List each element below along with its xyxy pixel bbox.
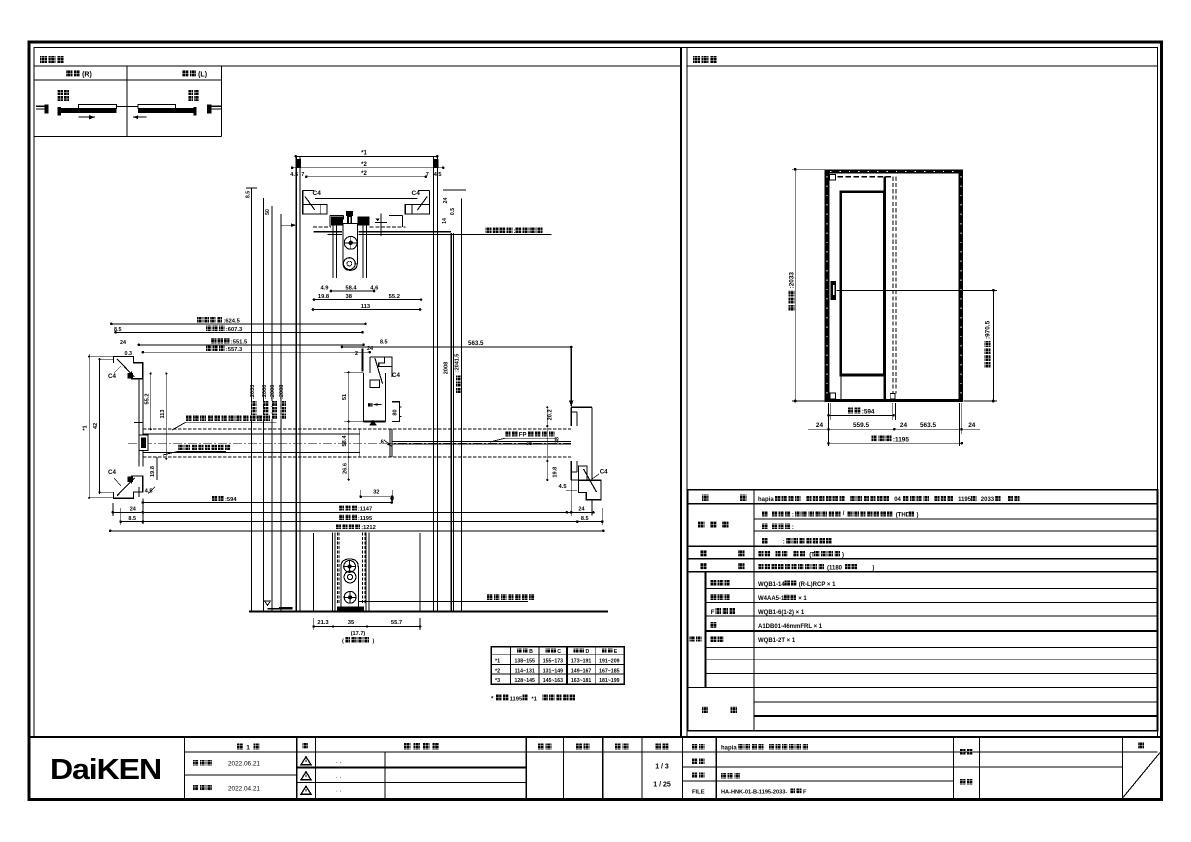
- svg-text:): ): [872, 566, 874, 572]
- svg-text:(THD: (THD: [896, 513, 911, 519]
- svg-text:1 / 3: 1 / 3: [655, 764, 669, 771]
- svg-text:C4: C4: [392, 372, 400, 379]
- door top track dashed line: [830, 176, 894, 178]
- sill casing line right: [419, 533, 421, 612]
- svg-text:(L): (L): [198, 72, 207, 79]
- svg-text:14: 14: [442, 218, 448, 224]
- hanger rail wings black: [331, 217, 343, 226]
- svg-text:58.4: 58.4: [345, 286, 357, 292]
- svg-text:2033: 2033: [981, 497, 995, 503]
- middle jamb body: [363, 373, 365, 421]
- vertical dim line 2008 right: [450, 233, 452, 612]
- door frame elevation left band: [825, 169, 830, 401]
- svg-text:24: 24: [120, 340, 126, 346]
- reference table headers: [517, 648, 522, 653]
- door section dim 19.8/38/55.2: [314, 299, 421, 301]
- wall stud blocking black square right: [433, 159, 438, 168]
- spec table vertical label divider: [753, 490, 755, 731]
- right side rows: [683, 751, 1123, 753]
- header 右引(R): [66, 70, 72, 77]
- wall stud blocking black square left: [296, 159, 301, 168]
- svg-text:24: 24: [816, 422, 824, 429]
- svg-text::: :: [792, 525, 794, 531]
- svg-text::1147: :1147: [358, 507, 372, 513]
- svg-text:55.7: 55.7: [391, 620, 402, 626]
- panel title bar bottom line left: [34, 65, 681, 67]
- svg-text::1195: :1195: [893, 436, 909, 443]
- svg-text:*3: *3: [495, 678, 500, 684]
- vertical dim line 吊元高2041.5 right: [460, 199, 462, 612]
- label No column: [303, 743, 309, 749]
- sliding direction table frame: [34, 79, 221, 81]
- leader note 引戸FP用キャップ: [505, 431, 511, 437]
- right jamb lower casing C4: [579, 466, 601, 500]
- rotated height dim label 2000: [263, 414, 268, 419]
- svg-text::551.5: :551.5: [231, 340, 248, 346]
- middle jamb rotated dims 58.4 26.6: [348, 422, 350, 480]
- plan top dim line 551.5: [139, 344, 364, 346]
- svg-text:(17.7): (17.7): [351, 631, 366, 637]
- svg-text::557.3: :557.3: [226, 347, 243, 353]
- spec 品番 sub row 吊戸車: [711, 594, 717, 600]
- svg-text:C4: C4: [600, 468, 608, 475]
- rail level mark triangle: [375, 218, 380, 221]
- dim extension verticals bottom left: [112, 503, 114, 516]
- spec row 把手 content: [758, 551, 764, 557]
- svg-text:128~145: 128~145: [515, 678, 535, 684]
- long vertical dim extension line x263: [263, 198, 265, 612]
- door floor guide cover bottom-left: [830, 393, 836, 399]
- door bottom dashed pair right: [361, 533, 363, 604]
- svg-text:19.8: 19.8: [553, 467, 559, 478]
- label 縮尺: [655, 744, 661, 750]
- svg-text:21.3: 21.3: [317, 620, 329, 626]
- label 第1版: [237, 744, 243, 750]
- spec row 仕上げ label: [698, 522, 704, 529]
- svg-text:F: F: [803, 790, 807, 796]
- plan top dim line 624.5: [111, 323, 365, 325]
- svg-text::2033: :2033: [789, 272, 796, 289]
- spec row 備考 label: [702, 707, 708, 714]
- svg-text:58.4: 58.4: [342, 435, 348, 447]
- svg-text:7: 7: [301, 172, 304, 178]
- left jamb vertical connecting lines: [138, 379, 140, 467]
- label 名称: [692, 744, 698, 750]
- svg-text:1195: 1195: [510, 696, 523, 702]
- door band centerline: [128, 442, 571, 444]
- note 吊戸レール:固定図参照: [486, 227, 492, 233]
- spec 品番 sub row 扉: [711, 622, 717, 628]
- title block top line: [29, 736, 1161, 738]
- spec table outer frame: [688, 490, 1158, 731]
- svg-text:191~209: 191~209: [599, 659, 619, 665]
- sill casing line left: [313, 533, 315, 612]
- svg-text:*1: *1: [361, 151, 367, 157]
- wall stud line pair right: [433, 156, 435, 612]
- hanger roller wheel upper: [344, 236, 357, 249]
- svg-text:138~155: 138~155: [515, 659, 535, 665]
- hanger rail stem black: [346, 211, 353, 216]
- 図名 content 三和土間: [721, 773, 727, 779]
- plan top dim line 607.3: [116, 331, 363, 333]
- svg-text:563.5: 563.5: [920, 422, 936, 429]
- svg-text:38: 38: [345, 294, 352, 300]
- svg-text:DaiKEN: DaiKEN: [50, 754, 161, 786]
- spec 仕上げ content rows: [762, 511, 768, 517]
- svg-text:24: 24: [130, 506, 137, 512]
- elevation left dim 枠外高2033: [794, 169, 796, 401]
- right jamb dim line 20.2/19.8: [546, 407, 548, 480]
- svg-text:WQB1-6(1-2) × 1: WQB1-6(1-2) × 1: [758, 610, 805, 616]
- svg-text:HA-HNK-01-B-1195-2033-: HA-HNK-01-B-1195-2033-: [721, 790, 787, 796]
- svg-text::2000: :2000: [270, 385, 276, 399]
- svg-text:C4: C4: [108, 373, 116, 380]
- leader line フラットレール: [358, 601, 528, 603]
- spec 品番 sub row 引手: [711, 636, 717, 642]
- sill dims 21.3/35/55.7: [314, 626, 420, 628]
- svg-text:1: 1: [246, 745, 250, 752]
- svg-text:4.5: 4.5: [290, 172, 298, 178]
- revision desc divider: [384, 752, 386, 799]
- svg-text:. .: . .: [336, 758, 342, 765]
- left-sliding mini schematic: [188, 90, 193, 95]
- svg-text:): ): [917, 513, 919, 519]
- label 承認: [538, 744, 544, 750]
- svg-text:): ): [842, 553, 844, 559]
- svg-text:WQB1-14: WQB1-14: [758, 582, 785, 588]
- svg-text:24: 24: [968, 422, 976, 429]
- svg-text:E: E: [614, 649, 618, 655]
- reference size table frame: [491, 647, 624, 685]
- svg-text:*1: *1: [531, 696, 537, 702]
- svg-text:F: F: [711, 609, 715, 616]
- door handle black with slot: [831, 281, 836, 300]
- title 正面図 (front view): [693, 56, 700, 63]
- svg-text::2033: :2033: [250, 385, 256, 399]
- middle jamb right bracket 80: [392, 402, 402, 422]
- svg-text:8.5: 8.5: [114, 327, 122, 333]
- svg-text:19.8: 19.8: [150, 466, 156, 477]
- header 左引(L): [182, 70, 188, 77]
- pocket edge dashed vertical pair: [892, 177, 894, 394]
- frame band white tick marks: [826, 176, 828, 396]
- svg-text:D: D: [586, 649, 590, 655]
- svg-text:8.5: 8.5: [581, 516, 589, 522]
- svg-text:8.5: 8.5: [128, 516, 136, 522]
- label 図名: [692, 772, 698, 778]
- middle jamb mark arrow: [368, 403, 372, 407]
- label 改訂日 and date: [193, 785, 199, 791]
- spec table 品番 sub divider: [705, 572, 707, 688]
- page cell diagonal: [1123, 753, 1160, 798]
- svg-text:19.8: 19.8: [318, 294, 330, 300]
- right jamb plan profile: [571, 406, 592, 408]
- svg-text:24: 24: [443, 198, 449, 204]
- svg-text:C4: C4: [108, 469, 116, 476]
- left dim vertical *1: [88, 354, 90, 498]
- bottom dim 1147 with 24 segments: [113, 511, 594, 513]
- floor guide wheel bottom: [344, 591, 356, 603]
- svg-text:113: 113: [160, 409, 166, 418]
- svg-text:W4AA5-1: W4AA5-1: [758, 596, 785, 602]
- inner drawing border frame: [34, 48, 1158, 738]
- svg-text:4.6: 4.6: [370, 286, 379, 292]
- svg-text:8.5: 8.5: [246, 191, 252, 198]
- middle jamb thick tick and label 2: [361, 349, 363, 372]
- rotated height dim label 枠外高2033: [251, 414, 256, 419]
- svg-text:*2: *2: [495, 668, 500, 674]
- svg-text:50: 50: [265, 209, 271, 215]
- door edge cap left: [139, 435, 148, 451]
- middle jamb rotated dim 51: [348, 372, 350, 421]
- svg-text:2: 2: [355, 351, 358, 357]
- label 品番: [692, 758, 698, 764]
- left dim vertical 42: [99, 359, 101, 494]
- hanger roller body: [343, 224, 357, 271]
- bottom dim 1212: [110, 530, 603, 532]
- top dim line 4.5/7.5: [306, 176, 425, 178]
- right-sliding mini schematic: [58, 90, 63, 95]
- note フラットレール: [487, 594, 493, 600]
- spec row 要式 label: [702, 495, 708, 502]
- long vertical dim extension line x251: [251, 188, 253, 612]
- svg-text::970.5: :970.5: [985, 320, 992, 339]
- svg-text:4.5: 4.5: [145, 488, 154, 494]
- svg-text:hapia: hapia: [721, 746, 737, 752]
- spec row 金物 label: [700, 563, 706, 570]
- leader line to rail note: [328, 234, 342, 236]
- left jamb plan top bracket: [114, 357, 143, 379]
- svg-text:163~181: 163~181: [571, 678, 591, 684]
- svg-text:0.5: 0.5: [450, 208, 456, 215]
- svg-text:55.2: 55.2: [389, 294, 400, 300]
- svg-text:114~131: 114~131: [515, 668, 535, 674]
- svg-text:*1: *1: [495, 659, 500, 665]
- svg-text:26.6: 26.6: [343, 463, 349, 474]
- panel title bar bottom line right: [687, 65, 1158, 67]
- svg-text:145~163: 145~163: [543, 678, 563, 684]
- dim extension verticals bottom right: [570, 480, 572, 516]
- svg-text::2041.5: :2041.5: [454, 354, 460, 372]
- svg-text:C4: C4: [313, 190, 322, 197]
- leader note 50キャップ: [178, 445, 183, 451]
- svg-text::: :: [783, 540, 785, 546]
- label 頁: [1138, 743, 1144, 749]
- door panel band right part: [392, 440, 571, 442]
- svg-text::1195: :1195: [358, 516, 372, 522]
- svg-text:51: 51: [342, 394, 348, 400]
- door top edge line: [314, 231, 343, 233]
- title block left rows: [184, 774, 296, 776]
- door frame elevation top band: [825, 169, 964, 173]
- svg-text:24: 24: [900, 422, 908, 429]
- svg-text:. .: . .: [336, 773, 342, 780]
- floor guide body: [341, 559, 358, 609]
- svg-text::2000: :2000: [262, 385, 268, 399]
- svg-text:559.5: 559.5: [853, 422, 869, 429]
- svg-text:149~167: 149~167: [571, 668, 591, 674]
- svg-text:*1: *1: [83, 425, 89, 430]
- svg-text:): ): [373, 638, 375, 644]
- svg-text:1 / 25: 1 / 25: [653, 782, 671, 789]
- svg-text:35: 35: [348, 620, 355, 626]
- svg-text:(R-L)RCP × 1: (R-L)RCP × 1: [799, 582, 836, 588]
- svg-text:8.5: 8.5: [380, 340, 388, 346]
- svg-text:04: 04: [894, 497, 901, 503]
- hanger roller wheel lower: [344, 258, 356, 270]
- svg-text:113: 113: [361, 304, 371, 310]
- svg-text:2008: 2008: [443, 362, 449, 374]
- svg-text:42: 42: [93, 423, 99, 429]
- svg-text:× 1: × 1: [798, 596, 807, 602]
- bottom dim 戸幅594 plan: [212, 496, 217, 501]
- door bottom dashed pair left: [336, 533, 338, 604]
- svg-text:B: B: [529, 649, 533, 655]
- elevation dim 戸幅594: [847, 407, 853, 413]
- elevation right dim 引手高970.5: [992, 290, 994, 401]
- elevation dim 枠外幅1195: [871, 435, 877, 441]
- svg-text:181~199: 181~199: [599, 678, 619, 684]
- door frame elevation right band: [959, 169, 964, 401]
- svg-text:173~191: 173~191: [571, 659, 591, 665]
- hanger roller rail vertical lines: [332, 226, 334, 278]
- door roller cover top-left: [829, 174, 835, 180]
- svg-text:C: C: [557, 649, 561, 655]
- svg-text:155~173: 155~173: [543, 659, 563, 665]
- leader note 化粧材を示す: [186, 415, 192, 421]
- door bottom left vertical: [840, 376, 842, 399]
- head jamb left casing profile: [302, 190, 304, 214]
- door section dim 113: [313, 309, 420, 311]
- rotated height dim label 内法高2000: [272, 414, 277, 419]
- svg-text:(R): (R): [82, 72, 92, 79]
- svg-text::1212: :1212: [361, 525, 376, 531]
- top dim line *1: [296, 155, 437, 157]
- spec row 把手 label: [700, 550, 706, 557]
- spec table horizontal lines: [688, 503, 1158, 505]
- bottom dim 1195 with 8.5 segments: [121, 521, 603, 523]
- floor guide wheel middle: [344, 571, 356, 583]
- door frame elevation sill band: [825, 399, 964, 402]
- title block verticals: [183, 737, 185, 799]
- svg-text::: :: [514, 229, 516, 235]
- floor level line: [249, 611, 608, 613]
- svg-text:(1180: (1180: [827, 566, 843, 572]
- long vertical dim extension line x272: [271, 206, 273, 612]
- svg-text:FP: FP: [519, 433, 527, 439]
- spec 品番 label: [690, 636, 696, 642]
- svg-text:55.2: 55.2: [144, 394, 150, 405]
- svg-text:*2: *2: [361, 162, 367, 168]
- svg-text:32: 32: [373, 489, 379, 495]
- svg-text:hapia: hapia: [758, 497, 774, 503]
- door bottom verticals left pair: [331, 533, 333, 612]
- head frame face line: [315, 198, 418, 200]
- label 制定日 and date: [193, 760, 199, 766]
- label 確認: [576, 744, 582, 750]
- svg-text::2008: :2008: [279, 385, 285, 399]
- svg-text:24: 24: [578, 506, 585, 512]
- wall stud line pair left: [295, 156, 297, 612]
- left plan rotated dim 19.8: [156, 457, 158, 480]
- door window glass thick rectangle: [841, 192, 885, 375]
- elevation dim row 24/559.5/24/563.5/24: [829, 428, 962, 430]
- svg-text:WQB1-2T × 1: WQB1-2T × 1: [758, 638, 796, 644]
- svg-text:4.5: 4.5: [434, 172, 442, 178]
- svg-text::594: :594: [862, 408, 875, 415]
- svg-text:7: 7: [426, 172, 429, 178]
- revision rows: [297, 767, 527, 769]
- pocket guide bottom cover: [890, 393, 895, 399]
- svg-text:563.5: 563.5: [468, 340, 484, 347]
- spec row 金物 content: [758, 564, 764, 570]
- title block header row line: [184, 751, 682, 753]
- top dim line *2: [292, 167, 443, 169]
- left plan rotated dim 113: [165, 374, 167, 459]
- left plan rotated dim 55.2: [150, 374, 152, 430]
- head jamb right casing profile: [429, 190, 431, 214]
- label 件名: [960, 749, 966, 755]
- svg-text:4.5: 4.5: [559, 484, 568, 490]
- svg-text:131~149: 131~149: [543, 668, 563, 674]
- door panel band left part: [143, 428, 571, 430]
- svg-text::: :: [792, 513, 794, 519]
- svg-text:2022.04.21: 2022.04.21: [228, 786, 260, 793]
- label 改訂履歴: [404, 743, 410, 750]
- rotated height dim label 戸高2008: [281, 414, 286, 419]
- dim line 563.5 with corner: [342, 346, 571, 348]
- title 断面図 (section view): [40, 56, 47, 63]
- svg-text::607.3: :607.3: [226, 327, 243, 333]
- svg-text:80: 80: [392, 409, 398, 415]
- svg-text:38: 38: [526, 441, 532, 447]
- svg-text:38: 38: [555, 437, 561, 443]
- svg-text:(: (: [342, 638, 344, 644]
- svg-text::624.5: :624.5: [223, 319, 240, 325]
- head frame soffit with rail pocket: [329, 215, 331, 227]
- floor guide base plates black: [337, 606, 364, 611]
- label 作成: [615, 744, 621, 750]
- door bottom verticals right pair: [365, 533, 367, 612]
- revision triangles: [301, 757, 311, 765]
- svg-text:A1DB01-46mmFRL × 1: A1DB01-46mmFRL × 1: [758, 624, 823, 630]
- plan top dim line 557.3: [143, 351, 370, 353]
- svg-text:FILE: FILE: [692, 790, 705, 796]
- spec 品番 sub row 吊戸枠: [711, 580, 717, 586]
- middle jamb hook profile: [370, 357, 392, 377]
- svg-text:1195: 1195: [958, 497, 972, 503]
- door section dim 4.9/58.4/4.6: [331, 290, 374, 292]
- panel divider line between section view and front view: [680, 48, 682, 738]
- svg-text:. .: . .: [336, 787, 342, 794]
- left jamb plan bottom bracket: [114, 476, 143, 498]
- svg-text:*2: *2: [361, 171, 367, 177]
- door right edge thick line: [883, 177, 885, 400]
- floor guide wheel top: [344, 561, 356, 573]
- svg-text:20.2: 20.2: [548, 409, 554, 420]
- svg-text:C4: C4: [412, 190, 421, 197]
- svg-text:4.9: 4.9: [320, 286, 329, 292]
- long vertical dim extension line x281: [280, 214, 282, 612]
- FL marker: [265, 601, 271, 606]
- svg-text:2022.06.21: 2022.06.21: [228, 761, 260, 768]
- label 担当: [960, 779, 966, 785]
- svg-text:167~185: 167~185: [599, 668, 619, 674]
